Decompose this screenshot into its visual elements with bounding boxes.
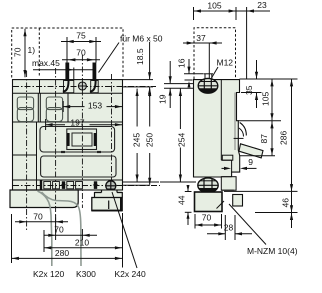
M12 screw washer	[198, 78, 218, 93]
svg-text:254: 254	[177, 133, 187, 147]
ext x82.4	[81, 229, 83, 240]
dim 44	[176, 185, 191, 225]
dim 105 right	[260, 79, 273, 120]
terminal clamp pole 2	[46, 97, 62, 122]
M12 stud	[204, 74, 213, 80]
bottom strip bottom edge	[13, 189, 123, 191]
pole 1 centre line	[26, 71, 28, 232]
leader K2x240	[112, 192, 137, 268]
top ref line right	[240, 78, 298, 80]
strip2 square d	[76, 182, 83, 189]
svg-text:105: 105	[207, 1, 221, 11]
cell divider b	[39, 93, 41, 122]
cable B	[42, 192, 82, 266]
left column divider	[36, 122, 38, 190]
dim 245	[132, 89, 142, 182]
rocker arc outer	[240, 123, 247, 136]
cells bottom line	[13, 121, 123, 123]
dim 18.5	[135, 42, 151, 97]
bottom plane ext b	[123, 184, 151, 186]
bottom terminal screw	[106, 181, 116, 191]
front view lower plinth	[10, 190, 78, 208]
side body front gray line	[234, 93, 236, 151]
strip2 black bar	[40, 181, 42, 191]
side body inner joint line	[220, 80, 222, 161]
ext x55.6	[55, 215, 57, 240]
lower front panel	[41, 156, 116, 177]
dim 46	[280, 192, 293, 228]
cable A	[38, 191, 52, 266]
clearance box divider	[38, 28, 40, 78]
svg-text:46: 46	[280, 198, 290, 208]
side lower step line	[221, 159, 231, 161]
svg-text:35: 35	[244, 85, 254, 95]
pole3 strip screw	[78, 82, 86, 90]
dim 70 bolts	[62, 48, 100, 62]
toggle outer	[67, 129, 97, 150]
toggle inner	[72, 133, 92, 146]
svg-text:16: 16	[177, 58, 187, 68]
svg-text:K300: K300	[76, 269, 96, 279]
cell divider a	[37, 93, 39, 122]
right mounting bolt M6	[90, 63, 96, 92]
svg-text:70: 70	[54, 225, 64, 235]
right ext line	[122, 213, 124, 268]
strip2 square c	[67, 182, 74, 189]
svg-text:23: 23	[257, 0, 267, 10]
strip2 mark a	[61, 181, 66, 189]
mounting bracket neck	[102, 190, 118, 193]
rear lower green	[221, 177, 236, 191]
dim 70 poles b	[44, 225, 97, 237]
bolt dim ext right	[95, 37, 97, 63]
toggle grip left	[67, 133, 70, 146]
svg-text:245: 245	[132, 133, 142, 147]
bracket thick bottom	[92, 210, 122, 212]
dim 210	[44, 237, 122, 249]
top edge extension	[123, 79, 154, 81]
strip2 square b	[53, 182, 60, 189]
bottom strip top edge	[13, 179, 123, 181]
side bottom edge detail	[221, 176, 231, 178]
dim 250	[144, 89, 154, 185]
leader M12	[212, 67, 219, 78]
front view body	[13, 80, 123, 190]
bolt slot plates	[64, 81, 99, 93]
max45 slot line	[73, 68, 75, 81]
pole 4 centre line	[111, 74, 113, 196]
svg-text:250: 250	[144, 133, 154, 147]
dim 286	[278, 79, 293, 191]
left ext line	[11, 214, 13, 263]
pole 2 centre line	[55, 68, 57, 232]
svg-text:286: 286	[278, 131, 288, 145]
ext line y88.2	[164, 87, 193, 89]
rocker pivot tick	[234, 137, 244, 139]
svg-text:70: 70	[76, 48, 86, 58]
dim 70 clearance	[13, 29, 27, 78]
cover bottom ext	[240, 155, 275, 157]
bottom strip centre line	[13, 185, 160, 187]
terminal centre line (dash-dot horizontal)	[13, 86, 156, 88]
svg-text:für M6 x 50: für M6 x 50	[120, 34, 163, 44]
svg-text:28: 28	[224, 223, 234, 233]
svg-text:9: 9	[248, 157, 253, 167]
side lower step vline	[231, 160, 233, 172]
rocker arc inner	[239, 128, 244, 137]
top terminal strip bottom edge	[13, 92, 123, 94]
svg-text:K2x 240: K2x 240	[115, 269, 146, 279]
dim 105 top	[194, 1, 271, 21]
clearance box	[12, 28, 123, 78]
svg-text:70: 70	[13, 47, 23, 57]
leader M6	[99, 43, 120, 73]
dim 70 flange	[195, 213, 222, 229]
left column row line	[13, 154, 37, 156]
M12 centre line	[208, 43, 210, 78]
rocker panel	[40, 127, 115, 153]
cell divider c	[67, 93, 69, 122]
mounting bracket flange fill	[95, 191, 122, 198]
terminal clamp pole 1	[17, 97, 33, 122]
bottom flange	[195, 192, 223, 212]
bracket inner tick	[108, 201, 110, 210]
ext line y83.6	[164, 83, 193, 85]
svg-text:1): 1)	[28, 45, 36, 55]
bracket thick right bar	[120, 198, 122, 211]
bolt dim ext left	[66, 37, 68, 63]
bottom ref line right	[224, 190, 298, 192]
dim 70 poles a	[15, 211, 68, 223]
lowest ref line right	[255, 212, 298, 214]
svg-text:M-NZM 10(4): M-NZM 10(4)	[247, 246, 298, 256]
dim 197	[46, 117, 123, 130]
pole 3 centre line	[81, 55, 83, 208]
svg-text:44: 44	[176, 195, 186, 205]
rear lower区 line	[221, 189, 234, 191]
svg-text:75: 75	[76, 31, 86, 41]
rocker panel tabs	[61, 151, 101, 153]
dim 280	[12, 248, 123, 260]
dim 9	[222, 157, 257, 170]
svg-text:105: 105	[260, 92, 270, 106]
mounting bracket body	[92, 198, 122, 211]
svg-text:280: 280	[55, 248, 69, 258]
cover ledge line	[238, 120, 281, 122]
svg-text:18.5: 18.5	[135, 48, 145, 65]
clip diagonal	[217, 201, 225, 209]
dim 37	[183, 33, 222, 45]
dim 19	[158, 61, 172, 108]
dim 23	[247, 0, 267, 79]
toggle grip right	[94, 133, 97, 146]
rocker handle	[239, 144, 263, 158]
leader M-NZM	[229, 204, 266, 245]
side view body	[194, 80, 240, 177]
mounting bracket flange	[95, 193, 123, 198]
centre extension	[123, 86, 154, 88]
strip2 mark b	[93, 181, 98, 189]
svg-text:210: 210	[75, 237, 89, 247]
strip divider	[39, 80, 41, 94]
dim max.45	[32, 58, 96, 71]
dim 153	[63, 100, 122, 112]
svg-text:K2x 120: K2x 120	[33, 269, 64, 279]
svg-text:70: 70	[33, 211, 43, 221]
svg-text:70: 70	[202, 213, 212, 223]
dim 75	[55, 31, 108, 44]
svg-text:37: 37	[196, 33, 206, 43]
side small block	[222, 155, 233, 160]
strip2 square a	[44, 182, 51, 189]
side clearance box	[194, 28, 236, 79]
din clip	[233, 195, 243, 207]
svg-text:153: 153	[88, 100, 102, 110]
dim 254	[177, 89, 187, 182]
ext x44	[43, 230, 45, 252]
dim 35	[241, 60, 262, 108]
svg-text:87: 87	[259, 134, 269, 144]
dim 87	[259, 121, 274, 155]
left mounting bolt M6	[63, 63, 69, 92]
body top tick	[185, 79, 193, 81]
bottom plane ext side	[160, 181, 196, 183]
dim 28	[207, 215, 252, 240]
bottom terminal screw side	[198, 178, 218, 193]
stud top ext	[184, 73, 204, 75]
svg-text:M12: M12	[217, 58, 234, 68]
svg-text:197: 197	[70, 117, 84, 127]
svg-text:max.45: max.45	[32, 58, 60, 68]
strip2 divider	[36, 180, 38, 190]
svg-text:19: 19	[158, 94, 168, 104]
bottom plane ext a	[123, 181, 160, 183]
dim 16	[177, 58, 191, 88]
